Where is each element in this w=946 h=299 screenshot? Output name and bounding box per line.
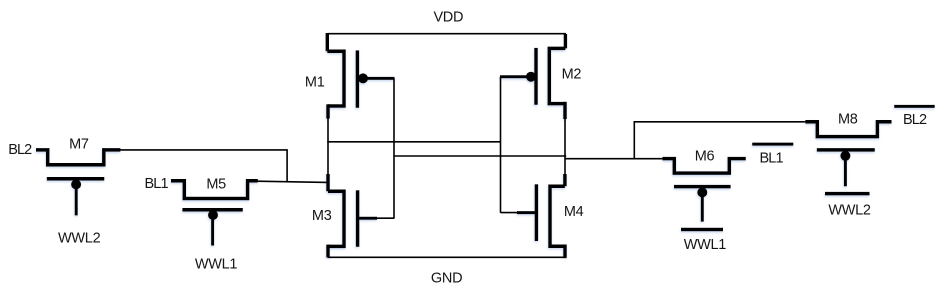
transistor M3 — [328, 174, 377, 257]
overline BL1 (right) — [752, 143, 793, 146]
svg-text:WWL2: WWL2 — [828, 203, 871, 219]
transistor M7 — [36, 150, 120, 216]
wire branch node Q to M8 source — [634, 122, 807, 159]
svg-text:M6: M6 — [695, 149, 715, 165]
svg-text:M3: M3 — [312, 208, 332, 224]
terminal bar WWL1 (right) — [681, 228, 723, 232]
svg-text:BL2: BL2 — [903, 112, 927, 128]
wire node QB column (M1 drain to M3 drain) — [327, 117, 329, 175]
svg-text:BL2: BL2 — [8, 142, 32, 158]
transistor M4 — [517, 174, 565, 257]
wire cross-couple Q to M1/M3 gate column (lower) — [394, 155, 566, 157]
wire M1/M3 gate column — [393, 78, 395, 218]
overline BL2 (right) — [894, 105, 935, 108]
wire M4 gate lead to column — [501, 212, 519, 214]
wire node Q to M6 source — [565, 158, 664, 160]
wire M3 gate lead to column — [376, 217, 394, 219]
svg-text:WWL1: WWL1 — [195, 257, 238, 273]
svg-text:M4: M4 — [564, 204, 584, 220]
wire M5 drain to node QB — [257, 181, 328, 182]
svg-text:BL1: BL1 — [145, 176, 169, 192]
wire M7 drain to node QB — [119, 150, 287, 182]
transistor M6 — [663, 159, 746, 222]
transistor M8 — [805, 122, 891, 187]
power rail GND — [328, 256, 567, 258]
svg-text:M8: M8 — [838, 112, 858, 128]
wire cross-couple QB to M2/M4 gate column (upper) — [327, 141, 500, 143]
wire VDD rail to M2 source — [564, 34, 567, 48]
svg-text:BL1: BL1 — [760, 150, 784, 166]
svg-text:M7: M7 — [69, 136, 89, 152]
svg-text:M2: M2 — [562, 67, 582, 83]
terminal bar WWL2 (right) — [825, 192, 870, 196]
wire M2/M4 gate column — [500, 77, 502, 213]
transistor M5 — [171, 181, 258, 246]
svg-text:GND: GND — [431, 270, 462, 286]
svg-text:M5: M5 — [206, 176, 226, 192]
svg-text:WWL2: WWL2 — [58, 230, 101, 246]
transistor M1 — [327, 50, 394, 118]
power rail VDD — [328, 33, 567, 35]
transistor M2 — [500, 48, 565, 119]
svg-text:WWL1: WWL1 — [684, 237, 727, 253]
svg-text:VDD: VDD — [433, 9, 463, 25]
wire node Q column (M2 drain to M4 drain) — [564, 118, 566, 175]
wire VDD rail to M1 source — [326, 33, 329, 51]
svg-text:M1: M1 — [305, 75, 325, 91]
